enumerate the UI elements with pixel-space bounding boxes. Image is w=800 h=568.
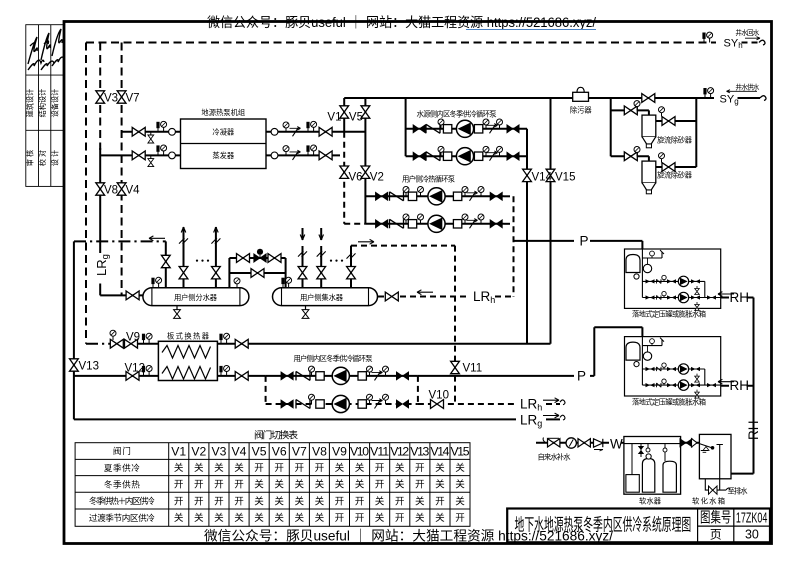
svg-text:开: 开 [194,496,204,507]
svg-text:P: P [580,234,589,249]
svg-text:开: 开 [335,496,345,507]
svg-text:开: 开 [234,480,244,491]
svg-text:蒸发器: 蒸发器 [212,151,235,160]
svg-text:开: 开 [455,513,465,524]
svg-text:过渡季节内区供冷: 过渡季节内区供冷 [89,512,155,523]
svg-text:开: 开 [375,463,385,474]
svg-text:页: 页 [710,528,722,542]
svg-text:关: 关 [455,495,465,507]
svg-text:结构设计: 结构设计 [38,89,47,118]
svg-text:关: 关 [295,512,305,524]
svg-text:关: 关 [355,462,365,474]
svg-text:关: 关 [194,462,204,474]
svg-text:关: 关 [435,512,445,524]
svg-text:关: 关 [435,479,445,491]
svg-text:冷凝器: 冷凝器 [212,128,235,137]
svg-text:V1: V1 [171,445,186,459]
svg-text:关: 关 [214,462,224,474]
svg-text:软水器: 软水器 [639,497,662,506]
svg-text:V1: V1 [327,112,341,124]
svg-text:落地式定压罐或膨胀水箱: 落地式定压罐或膨胀水箱 [632,398,706,407]
svg-text:开: 开 [234,496,244,507]
svg-text:开: 开 [295,463,305,474]
svg-text:关: 关 [455,479,465,491]
svg-text:关: 关 [254,479,264,491]
svg-text:落地式定压罐或膨胀水箱: 落地式定压罐或膨胀水箱 [632,310,706,319]
svg-text:开: 开 [174,480,184,491]
svg-text:V5: V5 [349,112,363,124]
svg-text:V11: V11 [463,363,483,375]
svg-text:关: 关 [315,479,325,491]
svg-text:关: 关 [415,512,425,524]
svg-text:V3: V3 [211,445,226,459]
svg-text:开: 开 [355,496,365,507]
svg-text:关: 关 [274,495,284,507]
svg-text:关: 关 [375,495,385,507]
svg-text:建筑设计: 建筑设计 [26,89,35,118]
svg-text:旋流除砂器: 旋流除砂器 [657,136,693,145]
svg-text:V8: V8 [312,445,327,459]
svg-text:关: 关 [335,462,345,474]
svg-text:开: 开 [375,480,385,491]
svg-text:V13: V13 [410,445,429,459]
svg-text:开: 开 [174,496,184,507]
svg-text:井水供水: 井水供水 [735,82,759,91]
svg-text:软化水箱: 软化水箱 [692,497,725,506]
svg-text:关: 关 [455,462,465,474]
svg-text:开: 开 [335,513,345,524]
svg-text:V5: V5 [252,445,267,459]
svg-text:开: 开 [415,463,425,474]
svg-text:开: 开 [355,513,365,524]
svg-text:关: 关 [335,479,345,491]
svg-text:开: 开 [395,513,405,524]
svg-text:自来水补水: 自来水补水 [538,453,572,462]
svg-text:地下水地源热泵冬季内区供冷系统原理图: 地下水地源热泵冬季内区供冷系统原理图 [515,515,692,535]
svg-text:关: 关 [254,495,264,507]
svg-text:开: 开 [254,463,264,474]
svg-text:关: 关 [375,512,385,524]
svg-text:关: 关 [295,479,305,491]
svg-text:关: 关 [395,462,405,474]
svg-text:V6: V6 [272,445,287,459]
svg-text:夏季供冷: 夏季供冷 [104,462,140,473]
svg-text:水源侧内区冬季供冷循环泵: 水源侧内区冬季供冷循环泵 [417,110,497,119]
svg-text:冬季供热: 冬季供热 [104,479,140,490]
svg-text:关: 关 [415,495,425,507]
svg-text:关: 关 [174,512,184,524]
svg-text:V10: V10 [350,445,369,459]
svg-text:关: 关 [274,479,284,491]
svg-text:关: 关 [274,512,284,524]
svg-text:V4: V4 [232,445,247,459]
svg-text:冬季供热＋内区供冷: 冬季供热＋内区供冷 [89,495,155,506]
svg-text:V12: V12 [390,445,409,459]
svg-text:图集号: 图集号 [700,509,731,526]
svg-text:V3: V3 [104,93,118,105]
svg-text:RH: RH [746,421,761,441]
svg-text:关: 关 [214,512,224,524]
svg-text:旋流除砂器: 旋流除砂器 [657,171,693,180]
svg-text:V8: V8 [104,185,118,197]
svg-text:关: 关 [194,512,204,524]
svg-text:关: 关 [435,462,445,474]
svg-text:关: 关 [174,462,184,474]
svg-text:阀门切换表: 阀门切换表 [254,429,298,442]
svg-text:关: 关 [254,512,264,524]
svg-text:V2: V2 [370,172,384,184]
svg-text:开: 开 [194,480,204,491]
svg-text:30: 30 [745,528,759,542]
svg-text:地源热泵机组: 地源热泵机组 [201,108,245,117]
svg-text:用户侧分水器: 用户侧分水器 [174,293,218,302]
svg-text:设 计: 设 计 [51,150,60,166]
svg-text:V7: V7 [126,93,140,105]
svg-text:校 对: 校 对 [38,150,47,166]
svg-text:审 核: 审 核 [26,150,35,166]
svg-text:RH: RH [730,290,750,305]
svg-text:除污器: 除污器 [570,106,593,115]
svg-text:关: 关 [315,512,325,524]
svg-text:开: 开 [214,496,224,507]
svg-text:V4: V4 [126,185,141,197]
svg-text:关: 关 [234,512,244,524]
svg-text:V10: V10 [429,390,449,402]
svg-text:V7: V7 [292,445,307,459]
svg-text:V9: V9 [332,445,347,459]
svg-text:板式换热器: 板式换热器 [167,331,210,340]
svg-text:RH: RH [730,378,750,393]
svg-text:至排水: 至排水 [728,487,749,496]
svg-text:开: 开 [435,496,445,507]
svg-text:关: 关 [234,462,244,474]
svg-text:V14: V14 [430,445,449,459]
svg-text:开: 开 [395,496,405,507]
svg-text:井水回水: 井水回水 [735,28,759,37]
svg-text:V11: V11 [370,445,389,459]
svg-text:关: 关 [315,495,325,507]
svg-text:P: P [577,369,586,384]
svg-text:V2: V2 [191,445,206,459]
svg-text:V15: V15 [451,445,470,459]
svg-text:17ZK04: 17ZK04 [736,509,768,526]
svg-text:V6: V6 [349,172,363,184]
svg-text:关: 关 [355,479,365,491]
svg-text:开: 开 [415,480,425,491]
svg-text:开: 开 [214,480,224,491]
svg-text:开: 开 [274,463,284,474]
svg-text:V13: V13 [79,361,99,373]
svg-text:阀门: 阀门 [113,445,131,456]
svg-text:开: 开 [315,463,325,474]
svg-text:W: W [610,437,623,452]
svg-text:设备设计: 设备设计 [51,89,60,118]
svg-text:用户侧内区冬季供冷循环泵: 用户侧内区冬季供冷循环泵 [294,354,373,363]
svg-text:关: 关 [395,479,405,491]
svg-text:V14: V14 [532,172,553,184]
svg-text:V9: V9 [126,332,140,344]
svg-text:V12: V12 [125,363,145,375]
svg-text:用户侧集水器: 用户侧集水器 [300,293,344,302]
svg-text:V15: V15 [555,172,575,184]
svg-text:用户侧冷热循环泵: 用户侧冷热循环泵 [402,175,455,184]
svg-text:关: 关 [295,495,305,507]
